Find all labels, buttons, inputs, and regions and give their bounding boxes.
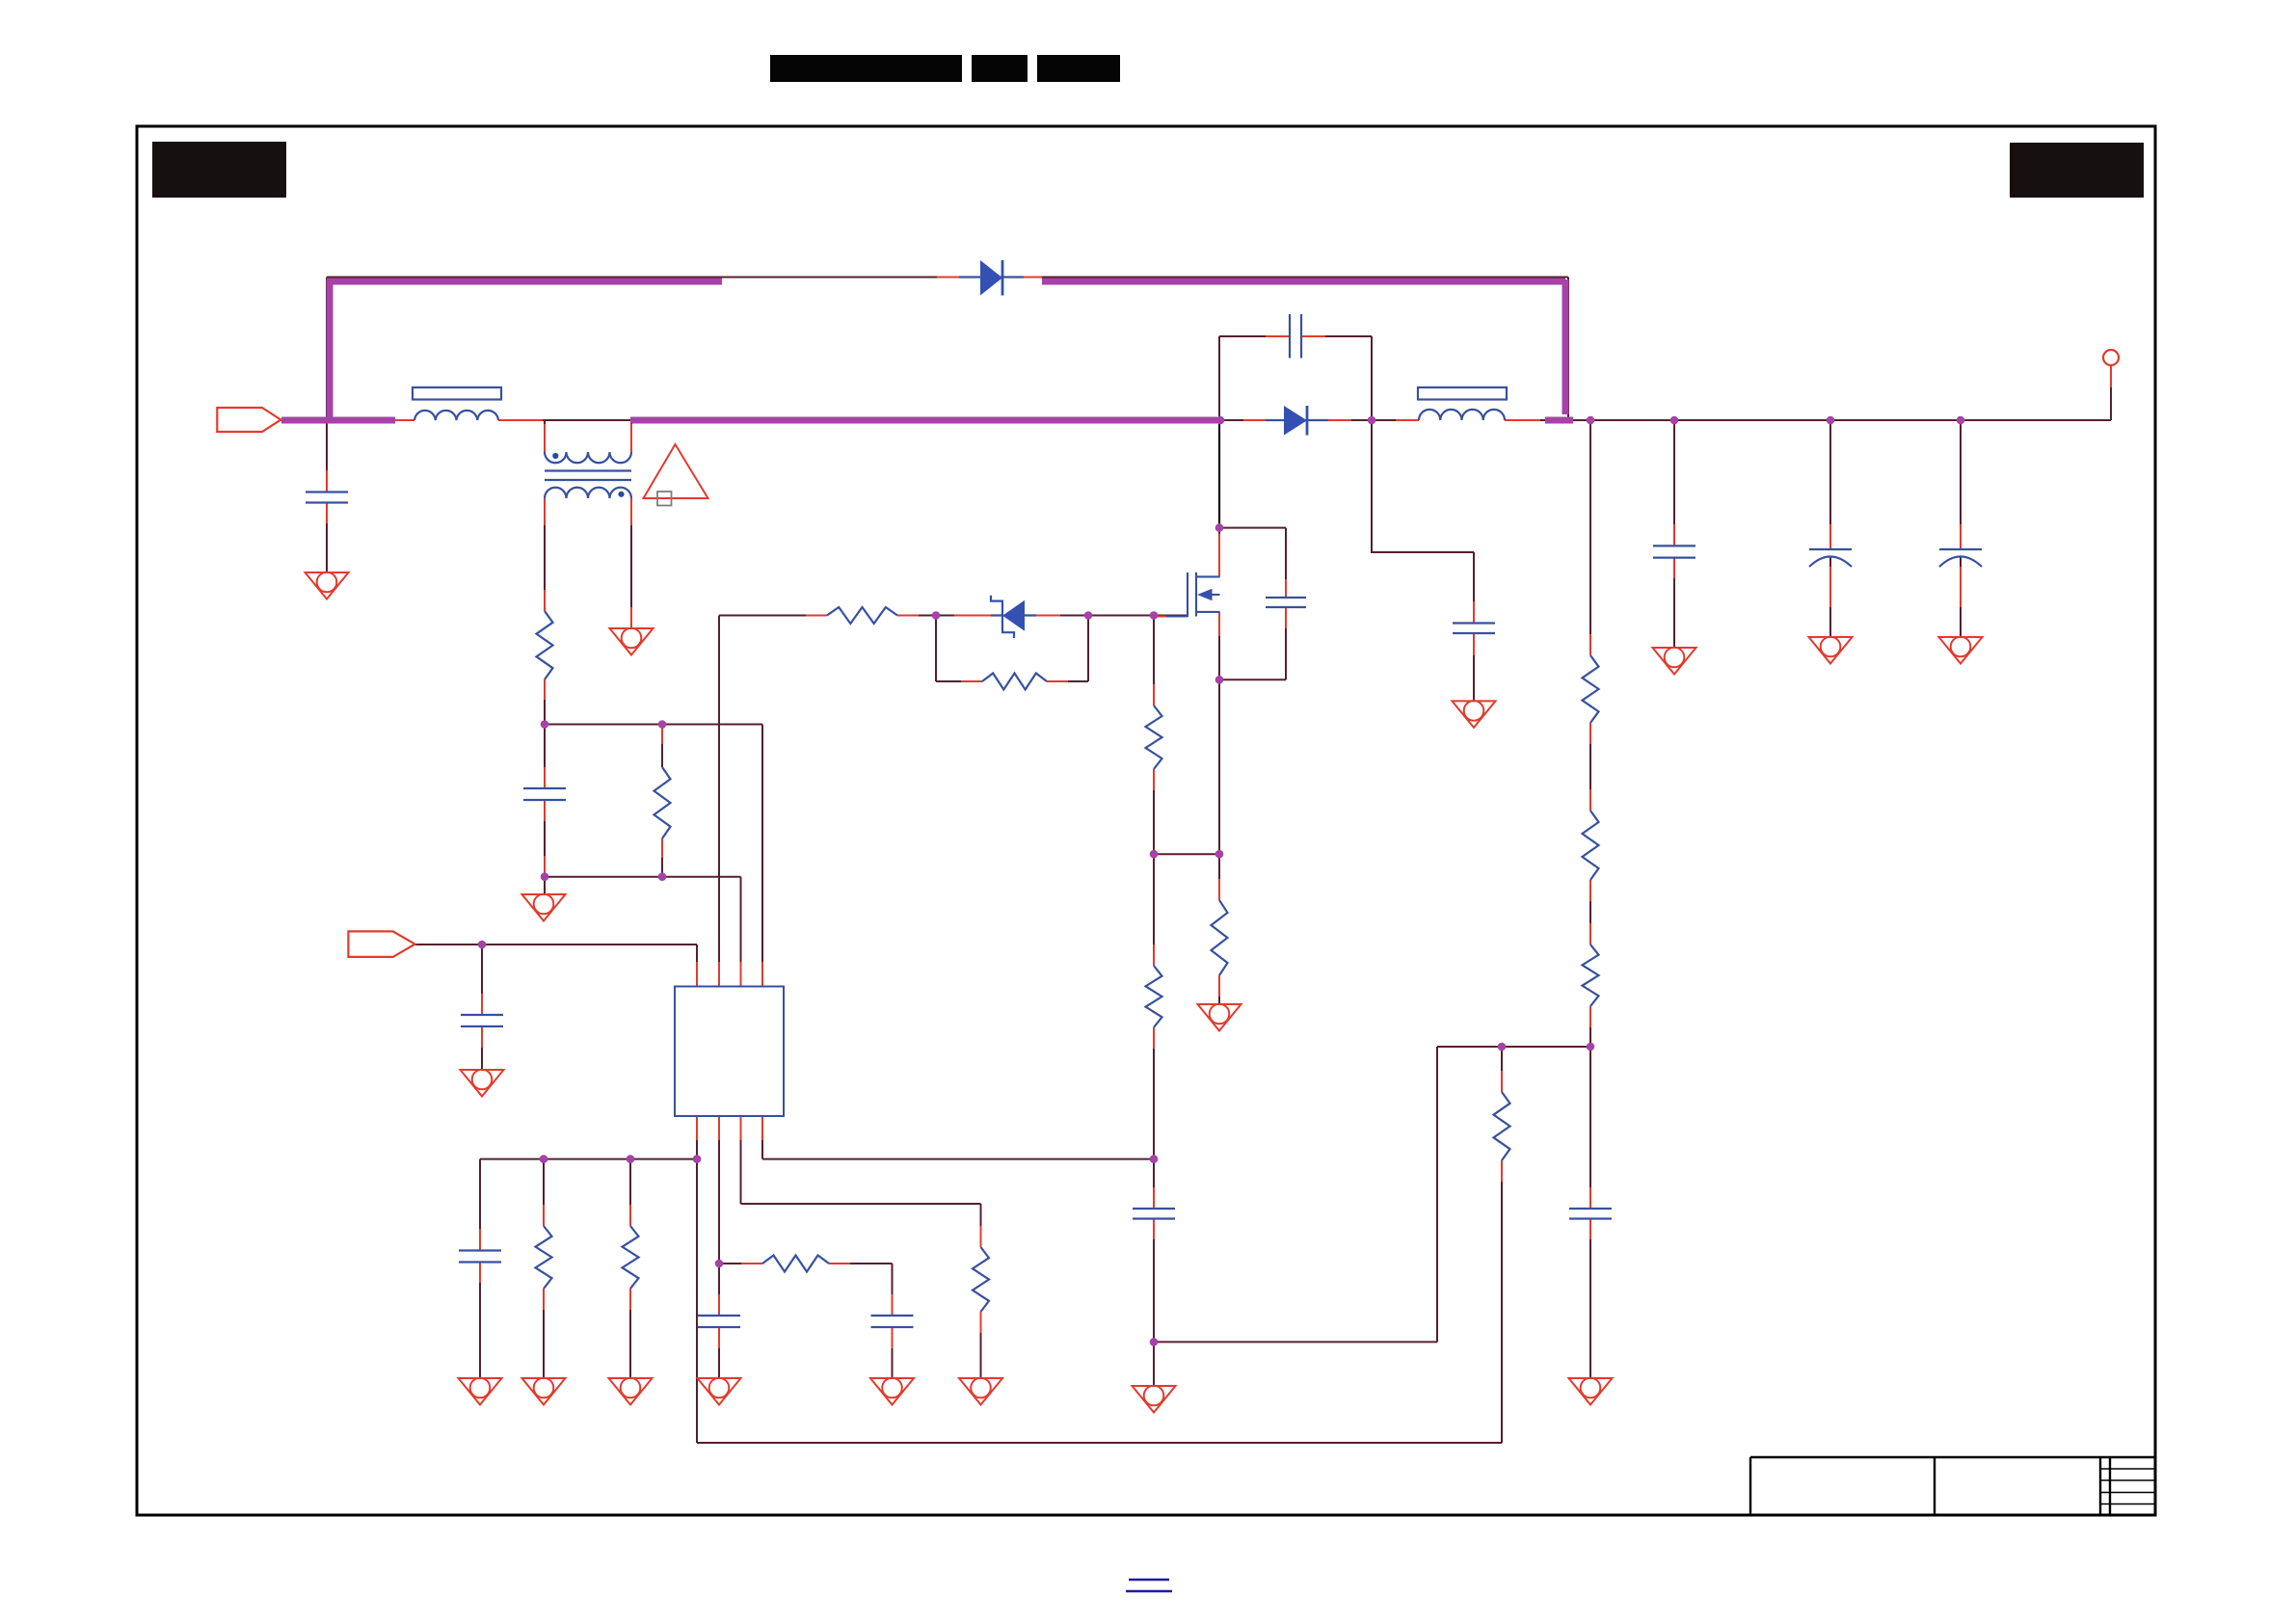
wire divider x=1197 (1153, 616, 1155, 1387)
wire C12 dropper (1829, 420, 1831, 637)
wire gate-drain cap loop (1219, 528, 1286, 680)
wire T1 primary right leg (630, 420, 632, 452)
node main/C11 (1670, 416, 1679, 425)
redacted title bar segment 2 (972, 55, 1028, 82)
ground (C11) (1653, 648, 1696, 675)
wire right divider column x=1650 (1589, 420, 1591, 1378)
node rail/pin1 (693, 1155, 702, 1163)
ground (R10) (522, 1378, 566, 1405)
wire red D2 leads (1243, 419, 1351, 421)
redacted title bar segment 3 (1037, 55, 1120, 82)
ground (C7) (459, 1378, 502, 1405)
node vcc right (658, 720, 667, 729)
wire purple top bus right segment (1042, 279, 1565, 285)
resistor R12 (row) (762, 1256, 829, 1272)
ground (C9) (870, 1378, 914, 1405)
node divider/link (1150, 850, 1159, 859)
node main/diode out (1368, 416, 1376, 425)
T1 secondary polarity dot (618, 492, 624, 497)
T1 primary winding (545, 452, 631, 463)
wire C9 dropper (892, 1264, 894, 1378)
wire red drain lead (1218, 534, 1220, 576)
wire output terminal riser (2110, 365, 2112, 420)
ground (sense resistor) (1198, 1004, 1241, 1031)
wire red leads R13 (1501, 1071, 1503, 1182)
wire red leads R4 loop (961, 680, 1068, 682)
node C10/feedback (1150, 1338, 1159, 1346)
redacted title bar segment 1 (top of page) (770, 55, 962, 82)
wire C13 dropper (1960, 420, 1962, 637)
node gate loop right (1084, 611, 1093, 620)
wire IC pin3 riser (740, 877, 742, 987)
node main/drain (1216, 416, 1225, 425)
wire IC pin4 bottom branch (762, 1116, 1154, 1159)
resistor R3 (gate series) (827, 607, 897, 624)
connector J1 (input) (217, 408, 280, 432)
capacitor C10 (1133, 1209, 1175, 1219)
Q1 gate bar (1187, 572, 1188, 617)
wire R10 legs (543, 1159, 545, 1378)
wire aux node to C4/R2 (544, 679, 546, 894)
wire red leads T1 secondary (545, 498, 631, 628)
resistor R1 (aux series) (537, 611, 553, 679)
wire red leads C12 C13 (1830, 524, 1961, 607)
wire T1 secondary left leg (544, 498, 546, 611)
ground (C12) (1809, 637, 1853, 664)
node main/divider (1587, 416, 1595, 425)
node source/link (1215, 850, 1224, 859)
wire red leads R9 (980, 1226, 982, 1333)
wire IC pin2 gate riser (718, 616, 720, 987)
ground (C13) (1939, 637, 1983, 664)
wire feedback link (1154, 1047, 1590, 1342)
wire IC pin4 riser (761, 725, 763, 987)
wire R13 column x=1558 (1501, 1047, 1503, 1443)
node rail/divider (1150, 1155, 1159, 1163)
wire bottom rail (697, 1159, 1502, 1443)
wire IC pin1 risers (696, 945, 698, 1159)
wire red leads R2 (661, 725, 663, 859)
ground (C1) (306, 572, 349, 599)
wire source column (1218, 612, 1220, 1004)
sheet border frame (137, 126, 2155, 1515)
wire red leads R5 (1153, 684, 1155, 790)
wire red leads right divider (1589, 634, 1591, 1027)
diode D2 (main bus) (1266, 406, 1328, 436)
ground (R9) (959, 1378, 1002, 1405)
wire red leads R6 (1153, 945, 1155, 1049)
wire T1 secondary right leg to ground (630, 498, 632, 628)
wire IC pin2 bottom column (718, 1116, 720, 1378)
Q1 body arrow (1197, 589, 1213, 600)
capacitor C7 (459, 1251, 501, 1263)
wire C6 dropper (481, 945, 483, 1070)
wire IC pin3 bottom branch (741, 1116, 981, 1378)
wire red leads C5 (1285, 579, 1287, 628)
resistor R8a (output divider top) (1583, 655, 1599, 723)
wire red lead C10 (1153, 1187, 1155, 1239)
capacitor C11 (output filter) (1653, 545, 1695, 557)
node rail/R10 (540, 1155, 548, 1163)
capacitor C4 (aux filter) (523, 788, 566, 800)
wire red top bus diode leads (937, 277, 1042, 279)
wire connector2 line (415, 944, 698, 945)
resistor R9 (973, 1247, 989, 1312)
capacitor C9 (871, 1316, 914, 1327)
wire link y=886.2 (1154, 853, 1219, 855)
wire gnd-sense rail y=909.7 (545, 876, 741, 878)
wire red C2 leads (1266, 335, 1325, 337)
wire purple main bus center segment (630, 417, 1217, 424)
wire top bus horizontal (327, 277, 1568, 279)
wire red leads gate resistor R3 (806, 615, 919, 617)
wire red leads C4 (544, 800, 546, 876)
wire red leads C7 (479, 1229, 481, 1283)
ground (R11) (609, 1378, 653, 1405)
wire red leads C8 (718, 1294, 720, 1348)
resistor R8b (output divider mid) (1583, 811, 1599, 880)
wire red leads R1 aux (544, 679, 546, 788)
node source/C5 (1215, 676, 1224, 684)
T1 secondary winding (545, 488, 631, 498)
ground (C8) (698, 1378, 741, 1405)
diode D1 (top bus) (959, 260, 1024, 296)
ground (C14) (1569, 1378, 1613, 1405)
capacitor C3 (snubber) (1453, 624, 1495, 634)
wire top bus right riser (1567, 278, 1569, 421)
node rail/R11 (627, 1155, 635, 1163)
wire red IC top pin stubs (697, 962, 762, 987)
node main/C12 (1827, 416, 1835, 425)
wire top cap C2 leads (1219, 335, 1372, 337)
wire red gate lead (1154, 616, 1166, 618)
wire purple top bus left segment (327, 279, 722, 285)
wire R11 legs (629, 1159, 631, 1378)
wire red leads R12 (741, 1263, 850, 1264)
wire purple left riser (327, 279, 334, 417)
node gndsense right (658, 872, 667, 881)
wire gnd rail y=1202.6 left (480, 1158, 697, 1160)
node pin2/R12 (715, 1260, 724, 1268)
wire R2 legs (661, 725, 663, 877)
wire red IC bottom pin stubs (697, 1116, 762, 1140)
resistor R5 (gate divider upper) (1146, 705, 1162, 769)
ground (snubber) (1453, 701, 1496, 728)
capacitor C1 (306, 492, 348, 503)
Q1 drain lead (1196, 575, 1220, 577)
wire C2 right dropper (1371, 336, 1373, 420)
wire red leads zener (954, 615, 1060, 617)
wire red source lead (1218, 612, 1220, 636)
output terminal circle (2103, 350, 2119, 365)
wire T1 primary left leg (544, 420, 546, 452)
wire red leads C9 (892, 1294, 894, 1348)
transformer T1 (545, 452, 631, 498)
Q1 channel bar (1195, 572, 1197, 617)
wire top bus left riser (326, 278, 328, 421)
wire snubber branch (1372, 420, 1474, 701)
ground (C6) (461, 1070, 504, 1097)
Q1 body lead (1211, 594, 1220, 596)
wire gate RC loop (936, 616, 1088, 682)
capacitor C12 (electrolytic) (1809, 548, 1852, 550)
capacitor C6 (J2 filter) (461, 1015, 503, 1026)
resistor R4 (gate loop) (982, 674, 1047, 690)
title block table bottom-right (1750, 1457, 2155, 1515)
redacted label box top-right (2010, 143, 2144, 198)
wire red L2 leads (1396, 419, 1540, 421)
ground (aux return) (522, 894, 566, 921)
ground (T1 secondary) (610, 628, 654, 655)
wire purple main bus after connector (281, 417, 395, 424)
capacitor C2 (top, horizontal) (1290, 314, 1301, 359)
T1 primary polarity dot (552, 453, 558, 459)
resistor R2 (aux bleed) (654, 767, 671, 838)
mosfet Q1 (1166, 572, 1220, 617)
node vcc left (541, 720, 549, 729)
resistor R10 (536, 1226, 552, 1289)
T1 core (545, 471, 631, 481)
node drain/C5 (1215, 523, 1224, 532)
node gndsense left (541, 872, 549, 881)
wire red lead L1 right (498, 419, 543, 421)
Q1 source lead (1196, 611, 1220, 613)
wire red leads C6 (481, 994, 483, 1048)
connector J2 (control input) (348, 931, 414, 957)
resistor R8c (output divider bottom) (1583, 945, 1599, 1006)
redacted page mark (blue equals sign) bottom center (1126, 1580, 1172, 1591)
wire red lead C1 (326, 470, 328, 523)
resistor R13 (feedback lower) (1494, 1092, 1510, 1160)
capacitor C5 (gate-drain) (1266, 598, 1306, 607)
redacted label box top-left (152, 142, 286, 198)
wire purple right riser foot (1545, 417, 1573, 424)
IC U1 (controller) (675, 987, 784, 1117)
wire red leads R10 R11 (544, 1205, 630, 1310)
wire main bus (280, 419, 2111, 421)
node feedback/R13 (1498, 1043, 1507, 1051)
wire drain column x=1265 (1218, 336, 1220, 576)
node J2/C6 (478, 941, 487, 949)
ground (C10) (1133, 1386, 1176, 1413)
wire VCC rail y=751.5 (545, 724, 762, 726)
inductor L2 (1418, 387, 1507, 420)
Q1 gate lead (1166, 615, 1188, 617)
wire red lead L1 left (395, 419, 414, 421)
resistor R11 (623, 1226, 639, 1289)
node gate loop left (932, 611, 941, 620)
wire red output terminal stub (2110, 366, 2112, 387)
node gate/divider (1150, 611, 1159, 620)
wire C11 dropper (1673, 420, 1675, 648)
wire gate line (719, 615, 1188, 617)
wire red leads C14 (1589, 1187, 1591, 1239)
node feedback/divider (1587, 1043, 1595, 1051)
wire red leads C11 (1673, 524, 1675, 578)
wire R12 row y=1311 (719, 1263, 893, 1264)
safety warning triangle (644, 444, 708, 498)
inductor L1 (413, 387, 501, 420)
warning triangle square mark (657, 492, 672, 506)
wire red leads T1 primary (545, 424, 631, 452)
resistor R6 (gate divider lower) (1146, 966, 1162, 1027)
node main/C13 (1957, 416, 1965, 425)
wire purple right riser (1562, 279, 1569, 414)
wire C7 dropper (479, 1159, 481, 1378)
capacitor C8 (698, 1316, 740, 1327)
capacitor C14 (1569, 1209, 1612, 1219)
wire red leads R7 sense (1218, 879, 1220, 997)
zener diode Z1 (991, 596, 1036, 638)
resistor R7 (current sense) (1212, 900, 1228, 975)
wire red leads snubber C3 (1473, 601, 1475, 655)
capacitor C13 (electrolytic) (1939, 548, 1982, 550)
wire C1 dropper (326, 420, 328, 572)
